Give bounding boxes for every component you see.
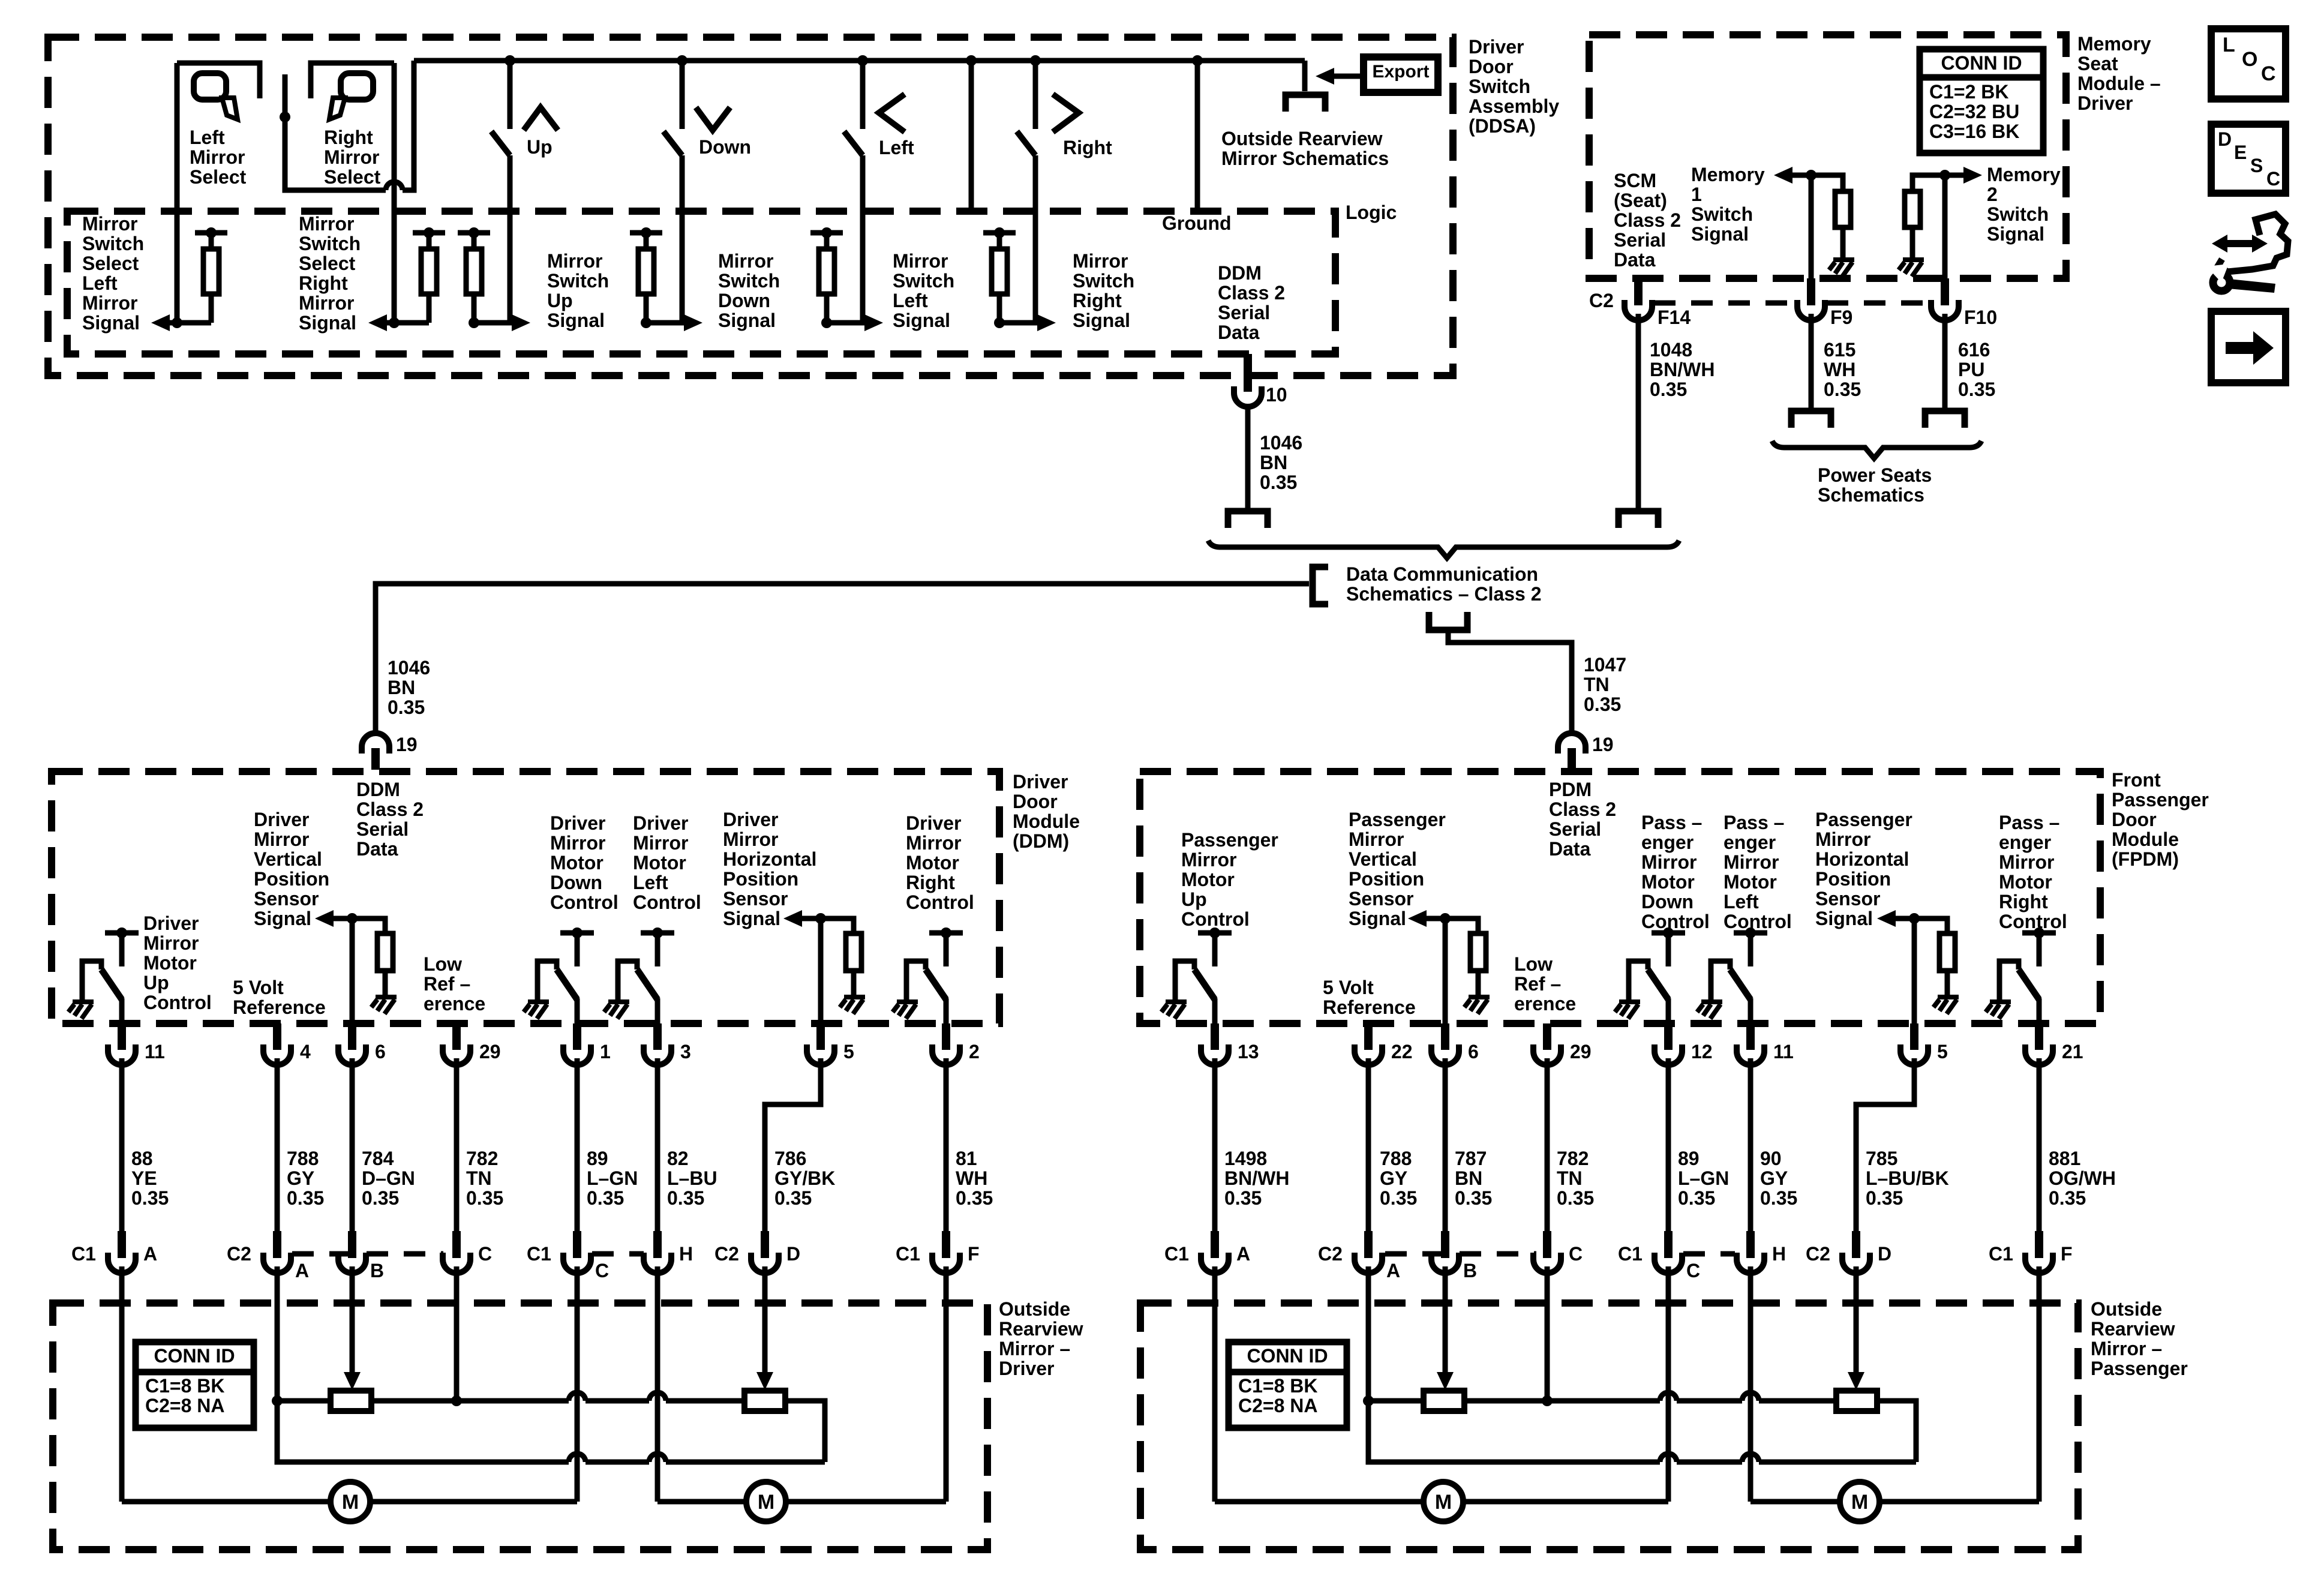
label C2 label (1589, 290, 1614, 311)
label ground label (1162, 212, 1232, 234)
junction right signal T node (994, 227, 1005, 238)
wire ORM-P sensor bus1 a (1368, 1398, 1424, 1404)
label fpdm horiz sensor label (1815, 809, 1912, 929)
label ORM-D conn id title (154, 1345, 235, 1367)
svg-text:GY: GY (1760, 1167, 1788, 1189)
connector FPDM pin 11 stub (1746, 1023, 1755, 1045)
svg-text:6: 6 (1468, 1041, 1479, 1062)
label DESC letters (2218, 128, 2232, 150)
conn id table ORM-P (1229, 1342, 1347, 1428)
svg-text:0.35: 0.35 (774, 1187, 812, 1209)
connector DDM pin 11 stub (118, 1023, 126, 1045)
wire right select stub (283, 74, 288, 117)
junction bus node x1726 (1030, 55, 1041, 66)
label pin 29 (479, 1041, 501, 1062)
svg-text:Low: Low (1514, 953, 1553, 975)
label C1 label p (1989, 1243, 2013, 1265)
connector connector ORM-D C (443, 1238, 470, 1273)
svg-text:Mirror: Mirror (82, 292, 137, 314)
label ddm right control label (906, 812, 974, 913)
wire left signal resistor top lead (824, 233, 830, 249)
wire right signal resistor top lead (997, 233, 1002, 249)
wire bus to orm schematics (1302, 61, 1308, 91)
svg-text:Passenger: Passenger (1349, 809, 1446, 830)
svg-text:C2=32 BU: C2=32 BU (1929, 101, 2019, 122)
label H letter (679, 1243, 693, 1265)
connector connector PDM 19 (1558, 733, 1586, 770)
label 782 TN 0.35 p (1557, 1148, 1594, 1209)
label pin 12 (1691, 1041, 1713, 1062)
label C letter p (1686, 1260, 1700, 1281)
svg-text:Sensor: Sensor (1815, 888, 1880, 909)
connector ORM-D C stub (452, 1231, 461, 1251)
svg-text:Mirror: Mirror (1349, 828, 1404, 850)
wire 785 L-BU/BK wire (1856, 1058, 1914, 1231)
svg-text:Left: Left (879, 137, 914, 158)
label 616 PU 0.35 (1958, 339, 1995, 400)
svg-text:C: C (478, 1243, 492, 1265)
label D letter (786, 1243, 800, 1265)
wire hop ORM-D bus2 hop2 (649, 1454, 666, 1462)
svg-text:Down: Down (550, 872, 602, 893)
svg-text:Mirror: Mirror (906, 832, 961, 854)
label F14 label (1658, 307, 1691, 328)
connector F9 stub (1807, 278, 1815, 299)
chevron up (524, 107, 558, 130)
connector DDM pin 2 stub (942, 1023, 950, 1045)
svg-text:C1: C1 (71, 1243, 96, 1265)
wire DDM horizontal sensor feedback (802, 918, 854, 933)
connector row dashes MSM (1654, 301, 1795, 306)
label 615 WH 0.35 (1824, 339, 1861, 400)
svg-text:Serial: Serial (356, 818, 409, 840)
connector row dashes ORM-D C2 (292, 1251, 443, 1257)
svg-text:enger: enger (1724, 831, 1776, 853)
wire 782 TN wire (454, 1058, 460, 1231)
svg-text:Memory: Memory (1691, 164, 1765, 185)
svg-text:(Seat): (Seat) (1614, 190, 1667, 211)
connector connector DDM 19 (362, 733, 389, 770)
wire memory2 res lead (1910, 227, 1915, 259)
svg-text:Sensor: Sensor (254, 888, 319, 909)
wire ORM-P wire D (1854, 1266, 1859, 1375)
svg-text:Schematics: Schematics (1818, 484, 1924, 506)
wire ORM-P sensor bus2 a (1368, 1401, 1660, 1462)
wire ddm 19 link (376, 584, 1309, 733)
connector FPDM pin 29 stub (1543, 1023, 1551, 1045)
wire 88 YE wire (119, 1058, 125, 1231)
label pin 5 (843, 1041, 854, 1062)
label mirror switch select right (299, 213, 361, 334)
svg-text:881: 881 (2049, 1148, 2080, 1169)
svg-text:29: 29 (1570, 1041, 1592, 1062)
label orm schematics label (1221, 128, 1389, 169)
wire left select line (175, 63, 180, 323)
label 788 GY 0.35 p (1380, 1148, 1417, 1209)
svg-text:Control: Control (1181, 908, 1250, 930)
svg-text:Seat: Seat (2077, 53, 2118, 74)
svg-text:Right: Right (1999, 891, 2048, 912)
wire 787 BN wire (1443, 1058, 1448, 1231)
wire up signal resistor bottom lead (472, 294, 477, 323)
svg-text:Reference: Reference (233, 996, 326, 1018)
svg-text:Select: Select (82, 253, 139, 274)
connector DDM pin 1 stub (573, 1023, 581, 1045)
svg-text:0.35: 0.35 (1380, 1187, 1417, 1209)
svg-text:Door: Door (1013, 791, 1058, 812)
label DDM serial label (356, 779, 424, 860)
connector ORM-P F stub (2035, 1231, 2043, 1251)
connector ORM-D B stub (348, 1231, 356, 1251)
switch FPDM motor down switch (1629, 933, 1685, 1023)
connector connector FPDM pin 11 (1737, 1029, 1764, 1065)
label 81 WH 0.35 (956, 1148, 993, 1209)
label C2 label (227, 1243, 251, 1265)
svg-text:TN: TN (1584, 674, 1610, 695)
label MSM title (2077, 33, 2161, 114)
switch down switch (663, 61, 682, 323)
svg-text:11: 11 (145, 1041, 165, 1062)
svg-text:Motor: Motor (1641, 871, 1695, 893)
chevron down (696, 107, 730, 130)
connector ORM-P C stub (1664, 1231, 1673, 1251)
svg-text:Passenger: Passenger (2091, 1358, 2188, 1379)
svg-text:A: A (1386, 1260, 1400, 1281)
svg-text:1046: 1046 (1260, 432, 1302, 454)
wire up signal resistor T (458, 230, 490, 236)
svg-text:BN: BN (1260, 452, 1287, 473)
connector connector DDM pin 4 (263, 1029, 291, 1065)
wire ORM-P wire A (1212, 1266, 1218, 1502)
junction FPDM horizontal sensor node (1909, 913, 1920, 924)
connector FPDM pin 22 stub (1364, 1023, 1373, 1045)
svg-text:Mirror: Mirror (299, 213, 354, 235)
svg-text:Right: Right (906, 872, 955, 893)
junction ORM-D bus1 node A2 (272, 1395, 283, 1406)
svg-text:Motor: Motor (1181, 869, 1235, 890)
connector ORM-P H stub (1746, 1231, 1755, 1251)
svg-text:616: 616 (1958, 339, 1990, 361)
label ORM-D conn id rows (145, 1375, 225, 1416)
wire right select loop (285, 117, 386, 190)
wire ORM-P sensor bus1 e (1877, 1401, 1916, 1462)
wire DDM vertical sensor to pin (350, 918, 355, 1023)
wire select right signal resistor top lead (427, 233, 432, 249)
connector connector ORM-D B (338, 1238, 366, 1273)
wire right signal signal run (999, 320, 1039, 326)
junction left signal node (821, 317, 832, 328)
junction DDM motor up switch contact (116, 927, 127, 938)
wire ORM-P sensor bus1 c (1677, 1398, 1742, 1404)
arrow FPDM vertical sensor signal arrow (1408, 910, 1427, 927)
svg-text:Right: Right (299, 272, 348, 294)
label left label (879, 137, 914, 158)
svg-text:Class 2: Class 2 (1614, 209, 1681, 231)
wire ORM-D wire A (119, 1266, 125, 1502)
label MSM conn id title (1941, 52, 2022, 74)
wire hop right select hop (386, 182, 403, 190)
wire FPDM horizontal sensor feedback (1896, 918, 1947, 933)
connector connector ORM-D A (263, 1238, 291, 1273)
chevron left (879, 94, 905, 132)
svg-text:Position: Position (1349, 868, 1424, 890)
label LOC letters (2223, 34, 2235, 56)
svg-text:Signal: Signal (547, 310, 605, 331)
arrow FPDM horizontal sensor signal arrow (1877, 910, 1896, 927)
svg-text:C1=8 BK: C1=8 BK (145, 1375, 225, 1397)
svg-text:Outside: Outside (2091, 1298, 2162, 1320)
svg-text:Mirror: Mirror (1724, 851, 1779, 873)
ground FPDM motor down switch ground (1615, 1002, 1640, 1019)
connector FPDM pin 12 stub (1664, 1023, 1673, 1045)
svg-text:Vertical: Vertical (254, 848, 322, 870)
connector connector FPDM pin 21 (2025, 1029, 2053, 1065)
junction memory1 node (1806, 170, 1816, 181)
connector connector ORM-D H (644, 1238, 671, 1273)
wire export arrow shaft (1333, 74, 1364, 79)
svg-text:89: 89 (587, 1148, 608, 1169)
svg-text:Signal: Signal (254, 908, 311, 929)
connector ORM-P B stub (1441, 1231, 1449, 1251)
wire ORM-D wire CC (575, 1266, 580, 1502)
wire hop ORM-P bus2 hop2 (1742, 1454, 1759, 1462)
label C2 label p (1806, 1243, 1830, 1265)
label 1047 TN 0.35 (1584, 654, 1626, 715)
arrow DDM horizontal sensor signal arrow (783, 910, 802, 927)
svg-text:F10: F10 (1964, 307, 1997, 328)
conn id table MSM (1920, 49, 2043, 153)
label ORM-P conn id rows (1238, 1375, 1318, 1416)
junction left signal T node (821, 227, 832, 238)
connector connector DDM pin 6 (338, 1029, 366, 1065)
ground FPDM motor up switch ground (1161, 1002, 1187, 1019)
svg-text:C: C (2261, 62, 2276, 85)
svg-text:5: 5 (843, 1041, 854, 1062)
connector ORM-D C stub (573, 1231, 581, 1251)
off-page connector power seats ref F10 (1925, 411, 1965, 428)
svg-text:Horizontal: Horizontal (723, 848, 816, 870)
label right mirror select label (324, 127, 381, 188)
connector connector ORM-P F (2025, 1238, 2053, 1273)
motor ORM-P motor M2 (1840, 1482, 1879, 1521)
label fpdm right control label (1999, 812, 2067, 932)
arrow down signal signal arrow (684, 314, 702, 331)
conn id table ORM-D (136, 1342, 254, 1428)
svg-text:Motor: Motor (906, 852, 959, 873)
svg-text:Mirror –: Mirror – (999, 1338, 1070, 1359)
svg-text:BN/WH: BN/WH (1224, 1167, 1289, 1189)
svg-text:Mirror: Mirror (547, 250, 602, 272)
connector DDM pin 29 stub (452, 1023, 461, 1045)
label H letter p (1772, 1243, 1786, 1265)
resistor FPDM vertical sensor resistor (1470, 933, 1486, 971)
resistor right signal resistor (992, 249, 1007, 294)
arrow ORM-D pot1 wiper arrow (344, 1372, 361, 1390)
svg-text:Outside Rearview: Outside Rearview (1221, 128, 1383, 149)
switch DDM motor down switch (538, 933, 594, 1023)
svg-text:C1: C1 (1164, 1243, 1189, 1265)
svg-text:89: 89 (1678, 1148, 1700, 1169)
svg-text:Signal: Signal (1815, 908, 1873, 929)
wire FPDM vertical sensor to pin (1443, 918, 1448, 1023)
svg-text:C1=2 BK: C1=2 BK (1929, 81, 2009, 103)
wire ORM-D motor1 row b (370, 1499, 577, 1505)
svg-text:Select: Select (324, 166, 381, 188)
junction select left signal T node (206, 227, 217, 238)
svg-text:PDM: PDM (1549, 779, 1592, 800)
icon box LOC (2211, 29, 2286, 99)
junction FPDM vertical sensor node (1440, 913, 1451, 924)
off-page connector power seats ref F9 (1791, 411, 1831, 428)
svg-text:Sensor: Sensor (723, 888, 788, 909)
svg-text:C1=8 BK: C1=8 BK (1238, 1375, 1318, 1397)
svg-text:Mirror –: Mirror – (2091, 1338, 2162, 1359)
switch FPDM motor left switch (1711, 933, 1767, 1023)
wire 1498 BN/WH wire (1212, 1058, 1218, 1231)
svg-text:BN/WH: BN/WH (1650, 359, 1715, 380)
svg-text:11: 11 (1773, 1041, 1794, 1062)
label memory1 label (1691, 164, 1765, 245)
label fpdm up control label (1181, 829, 1278, 930)
connector connector FPDM pin 13 (1201, 1029, 1229, 1065)
connector connector ORM-P B (1431, 1238, 1459, 1273)
svg-text:3: 3 (680, 1041, 691, 1062)
switch DDM motor right switch (906, 933, 963, 1023)
arrow left signal signal arrow (864, 314, 883, 331)
wire memory1 down (1809, 175, 1814, 278)
wire right select loop b (403, 61, 414, 190)
module box Driver Door Switch Assembly (DDSA) (48, 37, 1453, 376)
label DESC letters2 (2234, 142, 2247, 163)
svg-text:Data: Data (356, 838, 398, 860)
connector ORM-P C stub (1543, 1231, 1551, 1251)
svg-text:Mirror: Mirror (723, 828, 778, 850)
connector ORM-D D stub (761, 1231, 769, 1251)
connector DDM pin 4 stub (273, 1023, 281, 1045)
label mirror switch select left (82, 213, 144, 334)
label fpdm left control label (1724, 812, 1792, 932)
junction bus node x1996 (1192, 55, 1203, 66)
label fpdm lowref label (1514, 953, 1576, 1014)
label F10 label (1964, 307, 1997, 328)
svg-text:DDM: DDM (1218, 262, 1262, 284)
motor ORM-D motor M2 (746, 1482, 786, 1521)
label pin 21 (2062, 1041, 2083, 1062)
label 89 L-GN 0.35 p (1678, 1148, 1729, 1209)
label PDM serial label (1549, 779, 1616, 860)
wire right signal resistor T (983, 230, 1016, 236)
label ORM-D title (999, 1298, 1083, 1379)
svg-text:CONN ID: CONN ID (154, 1345, 235, 1367)
connector DDM pin 3 stub (653, 1023, 662, 1045)
wire 788 GY wire (275, 1058, 280, 1231)
svg-text:Low: Low (424, 953, 462, 975)
wire FPDM horizontal sensor resistor lead (1945, 971, 1950, 996)
wire DDSA supply bus (414, 58, 1305, 64)
wire memory1 res lead (1840, 227, 1846, 259)
svg-text:Pass –: Pass – (1724, 812, 1784, 833)
connector row dashes ORM-P C2 (1385, 1251, 1536, 1257)
label pin 1 (600, 1041, 611, 1062)
resistor select left signal resistor (203, 249, 219, 294)
svg-text:1048: 1048 (1650, 339, 1692, 361)
chevron right (1053, 94, 1079, 132)
svg-text:H: H (1772, 1243, 1786, 1265)
resistor memory2 resistor (1905, 191, 1920, 227)
svg-text:Mirror: Mirror (1181, 849, 1236, 870)
connector connector ORM-D A (108, 1238, 136, 1273)
wire ground line (1195, 61, 1200, 211)
connector connector ORM-P A (1355, 1238, 1382, 1273)
svg-text:615: 615 (1824, 339, 1855, 361)
svg-text:C: C (1569, 1243, 1583, 1265)
label pin 19 (396, 734, 418, 755)
svg-text:Signal: Signal (718, 310, 776, 331)
label A letter p (1236, 1243, 1250, 1265)
svg-text:Down: Down (718, 290, 770, 311)
svg-text:Left: Left (82, 272, 118, 294)
wire ORM-P wire F (2037, 1266, 2042, 1502)
wire 82 L-BU wire (655, 1058, 660, 1231)
svg-text:L: L (2223, 34, 2235, 56)
svg-text:29: 29 (479, 1041, 501, 1062)
svg-text:Position: Position (723, 868, 798, 890)
label fpdm down control label (1641, 812, 1710, 932)
icon box DESC (2211, 124, 2286, 193)
connector FPDM pin 13 stub (1211, 1023, 1219, 1045)
svg-text:Driver: Driver (999, 1358, 1055, 1379)
svg-text:787: 787 (1455, 1148, 1487, 1169)
junction DDM vertical sensor node (347, 913, 358, 924)
svg-text:0.35: 0.35 (287, 1187, 324, 1209)
svg-text:Left: Left (893, 290, 928, 311)
svg-text:Up: Up (143, 972, 169, 993)
svg-text:GY/BK: GY/BK (774, 1167, 835, 1189)
connector DDM pin 5 stub (816, 1023, 825, 1045)
label 88 YE 0.35 (131, 1148, 169, 1209)
wire ORM-P sensor bus1 b (1464, 1398, 1660, 1404)
svg-text:Rearview: Rearview (999, 1318, 1083, 1340)
svg-text:10: 10 (1266, 384, 1287, 406)
svg-text:Passenger: Passenger (2112, 789, 2209, 810)
icon vehicle outline with arrow and wrench (2218, 214, 2288, 272)
label 784 D-GN 0.35 (362, 1148, 415, 1209)
label 788 GY 0.35 (287, 1148, 324, 1209)
junction up signal T node (469, 227, 479, 238)
svg-text:Module: Module (2112, 828, 2179, 850)
svg-text:Motor: Motor (1999, 871, 2052, 893)
label power seats label (1818, 464, 1932, 506)
svg-text:19: 19 (1592, 734, 1614, 755)
label 1498 BN/WH 0.35 (1224, 1148, 1289, 1209)
svg-text:Signal: Signal (1691, 223, 1749, 245)
wire memory1 run (1792, 175, 1843, 191)
switch FPDM motor right switch (1999, 933, 2056, 1023)
module box Front Passenger Door Module (FPDM) (1140, 772, 2100, 1023)
connector connector FPDM pin 6 (1431, 1029, 1459, 1065)
svg-text:Motor: Motor (550, 852, 603, 873)
arrow ORM-D pot2 wiper arrow (756, 1372, 773, 1390)
junction down signal T node (641, 227, 651, 238)
svg-text:GY: GY (1380, 1167, 1407, 1189)
svg-text:788: 788 (287, 1148, 319, 1169)
connector connector FPDM pin 22 (1355, 1029, 1382, 1065)
svg-text:YE: YE (131, 1167, 157, 1189)
label A letter (143, 1243, 157, 1265)
svg-text:(DDSA): (DDSA) (1469, 115, 1536, 137)
svg-text:F14: F14 (1658, 307, 1691, 328)
connector ORM-D A stub (118, 1231, 126, 1251)
